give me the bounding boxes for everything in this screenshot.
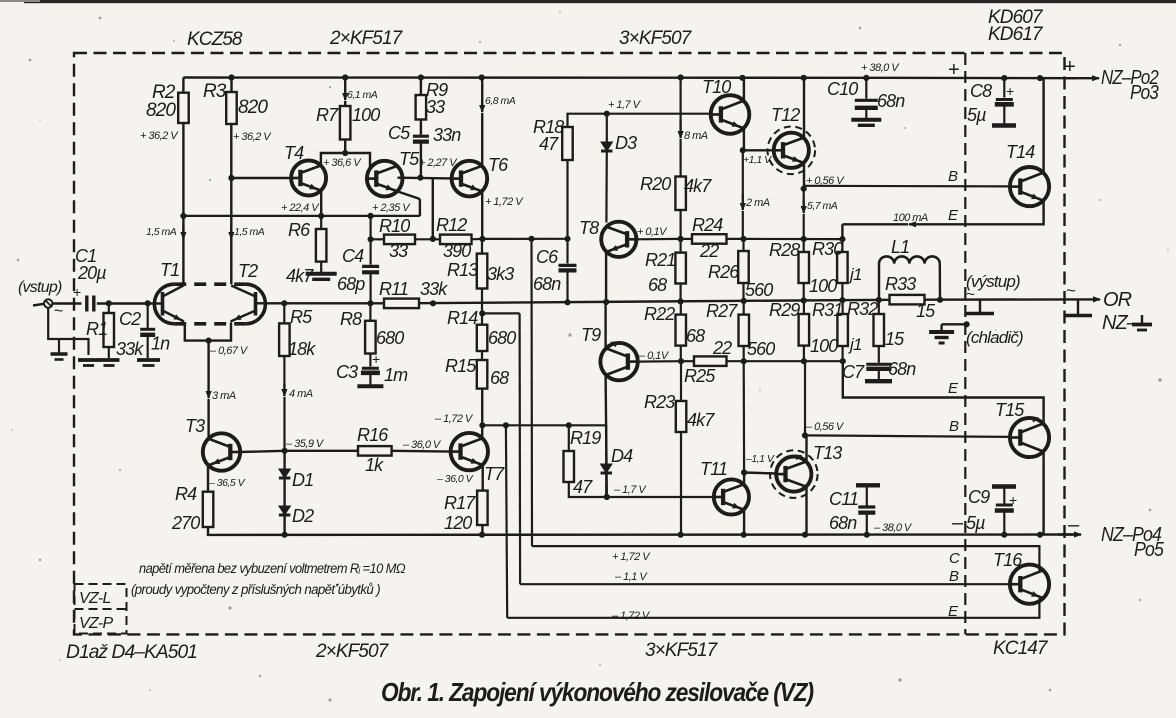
wire: T14 base line B [804, 185, 1010, 188]
svg-text:33k: 33k [116, 339, 144, 359]
svg-text:22: 22 [712, 338, 732, 358]
svg-text:j1: j1 [848, 265, 862, 284]
svg-text:100 mA: 100 mA [893, 212, 928, 224]
svg-text:T16: T16 [993, 550, 1023, 570]
svg-text:(výstup): (výstup) [966, 272, 1020, 291]
resistor R4 270 [203, 492, 214, 527]
svg-text:68: 68 [648, 275, 667, 295]
svg-text:D2: D2 [292, 506, 314, 526]
wire + 3mA arrow to T3 collector [207, 341, 209, 386]
resistor R12 390 [440, 235, 472, 245]
svg-text:3k3: 3k3 [487, 264, 514, 284]
svg-text:4k7: 4k7 [286, 266, 314, 286]
svg-text:T15: T15 [995, 400, 1025, 420]
svg-text:Po5: Po5 [1134, 539, 1165, 561]
chassis symbol below output rail at shield 1 [979, 300, 981, 313]
wire: R5 tail current column + 4mA [283, 303, 285, 323]
resistor R24 22 [681, 238, 692, 240]
svg-text:B: B [949, 568, 959, 585]
resistor R28 100 [799, 252, 810, 283]
svg-text:+ 1,72 V: + 1,72 V [612, 551, 651, 563]
svg-text:R12: R12 [436, 215, 467, 235]
wire: T10 emitter down to T12 base [743, 128, 745, 150]
svg-text:T10: T10 [702, 77, 731, 97]
svg-text:47: 47 [539, 134, 559, 154]
wire: T5 collector line to T6 base (+2,27V) [398, 176, 452, 179]
svg-text:R30: R30 [812, 239, 843, 259]
svg-text:VZ-P: VZ-P [79, 615, 113, 632]
svg-text:D1až D4–KA501: D1až D4–KA501 [66, 642, 197, 663]
svg-text:B: B [948, 168, 958, 185]
svg-text:Obr. 1. Zapojení výkonového ze: Obr. 1. Zapojení výkonového zesilovače (… [381, 677, 814, 707]
wire: T6 base drop to R12 [432, 178, 434, 238]
wire: R15 to T7 collector [481, 389, 483, 439]
ground at input jack [58, 339, 60, 353]
svg-text:R21: R21 [645, 250, 675, 270]
wire: T9 collector up to rail [604, 302, 606, 349]
svg-text:T14: T14 [1006, 142, 1035, 162]
svg-text:C3: C3 [336, 362, 358, 382]
capacitor C5 33n [420, 120, 422, 135]
svg-text:+ 1,7 V: + 1,7 V [608, 99, 642, 111]
wire: -1,72V line to D4 [482, 424, 606, 426]
resistor R2 820 [182, 78, 184, 93]
svg-text:T13: T13 [813, 443, 842, 463]
VZ-L / VZ-P selector box [75, 584, 127, 634]
svg-text:~: ~ [966, 286, 975, 303]
wire: T6 emitter down to R12/R13 node [481, 192, 483, 239]
node: R13/R14 junction with feedback tap [481, 289, 483, 325]
capacitor C8 5u electrolytic [1003, 78, 1005, 97]
wire + ground (chladic) [964, 321, 970, 327]
resistor R33 15 [890, 295, 925, 305]
capacitor C1 20u [85, 296, 88, 312]
resistor R22 68 [680, 301, 682, 315]
svg-text:R4: R4 [175, 484, 197, 504]
resistor R8 680 [369, 303, 371, 321]
svg-text:680: 680 [488, 328, 516, 348]
svg-text:T7: T7 [484, 464, 505, 484]
wire: T9 emitter down to -1,7V line [606, 375, 607, 497]
svg-text:R31: R31 [812, 300, 842, 320]
wire: T13 emitter up to -0,56V node [805, 435, 807, 460]
svg-text:T5: T5 [399, 149, 420, 169]
wire: main output rail (mid) [97, 302, 155, 304]
resistor R32 15 [878, 300, 880, 314]
svg-text:(vstup): (vstup) [18, 279, 62, 296]
wire: bottom rail arrow to NZ-Po4 [1058, 533, 1081, 535]
svg-text:– 1,72 V: – 1,72 V [434, 413, 474, 425]
svg-text:4k7: 4k7 [687, 410, 715, 430]
svg-text:C6: C6 [536, 247, 559, 267]
wire: input terminal to C1 [52, 302, 81, 304]
resistor R9 33 [420, 78, 422, 96]
svg-text:5,7 mA: 5,7 mA [807, 200, 838, 212]
svg-text:1m: 1m [384, 365, 408, 385]
svg-text:R1: R1 [86, 319, 107, 339]
ground at input shield entry [78, 358, 99, 362]
transistor T8 [601, 222, 636, 257]
svg-text:C11: C11 [829, 489, 858, 509]
ground below R1 [99, 358, 120, 362]
capacitor C10 68n [865, 78, 867, 99]
resistor R6 4k7 [320, 216, 322, 229]
svg-text:R24: R24 [692, 215, 723, 235]
capacitor C3 1m electrolytic [369, 354, 371, 367]
svg-text:+ 36,2 V: + 36,2 V [140, 130, 179, 142]
svg-text:–: – [1068, 514, 1080, 536]
capacitor C11 68n [856, 483, 880, 487]
svg-text:3×KF507: 3×KF507 [619, 28, 693, 49]
svg-text:C5: C5 [388, 123, 411, 143]
transistor T14 [1010, 167, 1049, 206]
svg-text:4k7: 4k7 [684, 176, 712, 196]
wire: T15 emitter E line to R31 node [843, 361, 1044, 423]
wire: feedback vertical -1,1V from R13/R14 node [518, 313, 521, 584]
transistor T6 [452, 161, 488, 197]
svg-text:E: E [948, 207, 959, 224]
svg-text:15: 15 [885, 329, 905, 349]
wire: T9 base to node [638, 360, 681, 363]
svg-text:+1,1 V: +1,1 V [743, 154, 772, 166]
svg-text:C9: C9 [968, 487, 990, 507]
wire: output arrow OR [1079, 298, 1100, 300]
svg-text:8 mA: 8 mA [684, 130, 708, 142]
svg-text:100: 100 [352, 105, 380, 125]
svg-text:C2: C2 [119, 309, 141, 329]
svg-text:C7: C7 [842, 362, 865, 382]
wire: top rail output arrow to NZ-Po2 [1066, 77, 1099, 79]
wire: -38V bottom supply rail [208, 527, 1077, 535]
chassis bar below C7 [865, 379, 892, 383]
resistor R5 18k [279, 323, 290, 356]
svg-text:D1: D1 [292, 470, 313, 490]
transistor T9 [600, 343, 637, 380]
svg-text:820: 820 [146, 100, 176, 121]
svg-text:B: B [949, 418, 959, 435]
transistor T13 with heatsink ring [744, 473, 776, 474]
svg-text:–1,1 V: –1,1 V [745, 453, 775, 465]
wire: T4 emitter down to +22,4V line [320, 191, 322, 216]
svg-text:+ 1,72 V: + 1,72 V [485, 196, 524, 208]
svg-text:+ 36,6 V: + 36,6 V [323, 157, 362, 169]
svg-text:6,8 mA: 6,8 mA [485, 95, 516, 107]
node: T4 base tap on R3 line [228, 175, 234, 181]
svg-text:– 36,0 V: – 36,0 V [436, 473, 474, 485]
wire: T8 emitter down to rail [605, 252, 607, 302]
wire: B line -1,1V to T16 base [520, 583, 1010, 585]
wire: +22,4V / +2,35V horizontal line [183, 215, 420, 217]
svg-text:R32: R32 [847, 299, 878, 319]
wire: T4 collector box to R7 and T5 base [321, 153, 370, 169]
svg-text:R7: R7 [316, 105, 339, 125]
svg-text:R5: R5 [290, 307, 313, 327]
node: mid rail junctions [106, 300, 112, 306]
wire: +38V top supply rail [183, 76, 1077, 79]
svg-text:1k: 1k [365, 455, 384, 475]
svg-text:R14: R14 [447, 308, 478, 328]
svg-text:18k: 18k [288, 339, 316, 359]
svg-text:T8: T8 [579, 218, 599, 238]
svg-text:6,1 mA: 6,1 mA [347, 89, 378, 101]
diode D3 [604, 111, 610, 117]
wire: T15 base line B [805, 435, 1010, 437]
svg-text:100: 100 [810, 336, 838, 356]
svg-text:L1: L1 [891, 237, 909, 257]
wire: T5 emitter to +2,35V line [398, 191, 420, 199]
svg-text:+ 2,27 V: + 2,27 V [419, 157, 458, 169]
diode D4 [605, 425, 607, 464]
resistor R1 33k [108, 304, 110, 314]
svg-text:390: 390 [443, 241, 471, 261]
svg-text:68n: 68n [533, 274, 561, 294]
svg-text:– 38,0 V: – 38,0 V [873, 522, 913, 534]
svg-text:2×KF517: 2×KF517 [329, 28, 404, 49]
svg-text:R29: R29 [769, 300, 800, 320]
svg-text:680: 680 [376, 328, 404, 348]
node: top rail junctions [228, 74, 234, 80]
svg-text:R13: R13 [447, 260, 478, 280]
svg-text:– 1,1 V: – 1,1 V [614, 571, 648, 583]
svg-text:–: – [952, 512, 964, 534]
wire: T2 collector to R3 [230, 124, 232, 284]
svg-text:– 1,7 V: – 1,7 V [613, 484, 647, 496]
svg-text:R3: R3 [203, 81, 227, 102]
svg-text:68: 68 [490, 368, 509, 388]
svg-text:D4: D4 [611, 446, 633, 466]
resistor R20 4k7 + 8mA [679, 78, 681, 121]
capacitor C7 68n [866, 363, 891, 366]
svg-text:1,5 mA: 1,5 mA [234, 226, 265, 238]
svg-text:– 35,9 V: – 35,9 V [285, 438, 325, 450]
svg-text:OR: OR [1103, 289, 1132, 311]
svg-text:R33: R33 [885, 274, 916, 294]
diode D2 KA501 [283, 478, 285, 506]
svg-text:T6: T6 [488, 155, 509, 175]
svg-text:R10: R10 [379, 216, 410, 236]
outer dashed enclosure border [74, 53, 1065, 634]
svg-text:+ 38,0 V: + 38,0 V [861, 62, 900, 74]
svg-text:100: 100 [809, 276, 837, 296]
transistor T12 with heatsink ring [743, 149, 774, 151]
svg-text:33k: 33k [420, 279, 448, 299]
svg-text:T1: T1 [160, 260, 179, 280]
svg-text:Po3: Po3 [1130, 82, 1159, 104]
svg-text:– 1,72 V: – 1,72 V [611, 610, 651, 622]
transistor T10 [711, 95, 750, 134]
svg-text:68p: 68p [337, 274, 365, 294]
svg-text:– 0,67 V: – 0,67 V [209, 345, 249, 357]
svg-text:R15: R15 [445, 356, 477, 376]
svg-text:KD617: KD617 [988, 24, 1044, 45]
transistor T7 [451, 433, 488, 470]
node line right of R24 [744, 238, 843, 240]
svg-text:120: 120 [444, 513, 472, 533]
ground below C3 [357, 384, 383, 388]
svg-text:T3: T3 [185, 416, 205, 436]
svg-text:+: + [1009, 492, 1017, 508]
wire: T3 emitter to R4 [207, 466, 209, 492]
capacitor C4 68p [370, 216, 372, 239]
ground below C2 [137, 358, 160, 362]
transistor T2 [256, 302, 266, 304]
wire: T7 emitter to R17 [481, 465, 483, 490]
wire: input ground run [48, 308, 88, 355]
svg-text:820: 820 [238, 97, 268, 118]
transistor T16 [1010, 565, 1049, 604]
svg-text:+: + [372, 351, 380, 367]
svg-text:R6: R6 [288, 220, 311, 240]
resistor R11 33k [384, 299, 419, 309]
svg-text:+: + [73, 284, 81, 300]
svg-text:33n: 33n [433, 125, 461, 145]
svg-text:R27: R27 [706, 301, 738, 321]
svg-text:R16: R16 [357, 425, 389, 445]
svg-text:33: 33 [389, 241, 408, 261]
svg-text:KCZ58: KCZ58 [187, 29, 243, 50]
svg-text:– 0,56 V: – 0,56 V [805, 421, 845, 433]
resistor R21 68 [678, 236, 684, 242]
svg-text:~: ~ [54, 303, 63, 320]
resistor R19 47 [568, 425, 570, 451]
svg-text:15: 15 [916, 301, 936, 321]
wire: D2 to bottom rail [283, 515, 285, 535]
transistor pair T1 T2 stadium outline [154, 284, 174, 324]
svg-text:1n: 1n [151, 334, 170, 354]
svg-text:+ 36,2 V: + 36,2 V [233, 131, 272, 143]
svg-text:33: 33 [426, 97, 445, 117]
resistor R10 33 [384, 235, 415, 245]
svg-text:(proudy vypočteny z příslušnýc: (proudy vypočteny z příslušných napěťʼúb… [131, 582, 380, 597]
svg-text:2×KF507: 2×KF507 [315, 641, 390, 662]
resistor R14 680 [477, 325, 488, 351]
wire: T14 emitter E line + 100mA [928, 201, 1044, 225]
wire: T6 collector to top rail + 6,8mA [481, 113, 483, 165]
wire: T12 base tap down to R26 + 2mA [742, 150, 744, 194]
current arrow 4mA [283, 356, 285, 384]
svg-text:C: C [949, 550, 960, 567]
svg-text:R26: R26 [708, 262, 740, 282]
resistor R27 560 [743, 301, 745, 315]
resistor R7 100 [344, 78, 346, 88]
svg-text:47: 47 [573, 477, 593, 497]
resistor R31 j1 [841, 300, 843, 314]
transistor T15 [1010, 418, 1049, 457]
wire: C line +1,72V to T16 collector [532, 546, 1039, 571]
scan edge artifact top [24, 0, 1176, 3]
wire: T12 emitter to +0,56V node + 5,7mA [803, 164, 805, 189]
node: bottom rail junctions [282, 532, 288, 538]
svg-text:68: 68 [686, 326, 705, 346]
current arrow 1,5mA right [230, 226, 232, 239]
svg-text:5µ: 5µ [967, 105, 986, 125]
svg-text:+: + [948, 59, 959, 81]
svg-text:T9: T9 [581, 325, 601, 345]
capacitor C9 5u electrolytic [992, 484, 1016, 488]
node line from R12 to C6 (T8 side) [483, 238, 568, 240]
chassis symbol below output rail at shield 2 [1077, 299, 1079, 314]
svg-text:R28: R28 [769, 240, 800, 260]
svg-text:68n: 68n [829, 513, 857, 533]
svg-text:270: 270 [171, 513, 200, 533]
svg-text:(chladič): (chladič) [966, 328, 1023, 347]
svg-text:+ 2,35 V: + 2,35 V [372, 202, 411, 214]
ground below R6 [320, 262, 322, 273]
resistor R26 560 [742, 239, 744, 251]
svg-text:1,5 mA: 1,5 mA [146, 226, 177, 238]
wire: T11 collector up to T13 base node [743, 473, 745, 485]
wire: T13 collector to bottom rail [805, 488, 807, 535]
svg-text:560: 560 [747, 339, 775, 359]
transistor T4 [291, 161, 326, 196]
wire: T8 base to node [636, 238, 680, 241]
svg-text:R22: R22 [644, 304, 675, 324]
svg-text:R19: R19 [570, 428, 601, 448]
node line right of R25 [744, 360, 843, 362]
diode D1 KA501 [283, 451, 285, 469]
svg-text:E: E [948, 380, 959, 397]
resistor R13 3k3 [481, 239, 483, 254]
inductor L1 [878, 264, 880, 300]
svg-text:– 0,1V: – 0,1V [638, 350, 670, 362]
svg-text:– 36,0 V: – 36,0 V [402, 439, 442, 451]
wire: T4 base from R3 line [231, 177, 291, 179]
resistor R18 47 [566, 160, 568, 239]
wire: T12 collector to rail [803, 78, 805, 137]
svg-text:T2: T2 [238, 261, 258, 281]
wire: feedback vertical +1,72V from R12 node [530, 239, 533, 546]
svg-text:3 mA: 3 mA [212, 390, 236, 402]
resistor R16 1k [285, 450, 358, 452]
svg-text:T4: T4 [284, 143, 304, 163]
svg-text:+: + [1064, 56, 1075, 78]
svg-text:2 mA: 2 mA [745, 197, 770, 209]
resistor R17 120 [477, 491, 488, 525]
svg-text:R25: R25 [684, 366, 716, 386]
svg-text:22: 22 [699, 241, 719, 261]
svg-text:R23: R23 [644, 392, 675, 412]
transistor T5 [367, 161, 403, 197]
svg-text:68n: 68n [877, 91, 905, 111]
wire: T14 collector to rail [1042, 78, 1044, 172]
svg-text:R8: R8 [340, 309, 362, 329]
wire: T3 base line with -35,9V [240, 451, 284, 452]
svg-text:R11: R11 [379, 279, 408, 299]
resistor R23 4k7 [680, 361, 682, 401]
svg-text:napětí měřena bez vybuzení vol: napětí měřena bez vybuzení voltmetrem Rᵢ… [139, 561, 405, 576]
svg-text:+ 0,1V: + 0,1V [637, 226, 668, 238]
svg-text:C8: C8 [970, 81, 992, 101]
svg-text:5µ: 5µ [966, 513, 985, 533]
transistor T3 [203, 433, 240, 470]
transistor T1 [154, 302, 162, 304]
resistor R15 68 [481, 351, 483, 360]
wire: T15 collector to bottom rail [1042, 452, 1044, 535]
wire: T11 emitter to bottom rail [743, 510, 745, 535]
svg-text:+: + [1006, 83, 1014, 99]
svg-text:VZ-L: VZ-L [79, 590, 111, 607]
svg-text:R17: R17 [444, 493, 476, 513]
svg-text:560: 560 [745, 280, 773, 300]
capacitor C6 68n [566, 239, 568, 264]
svg-text:KC147: KC147 [993, 638, 1049, 659]
resistor R25 22 [681, 360, 694, 362]
wire: E line -1,72V to T16 emitter [507, 598, 1039, 618]
wire: T10 collector to rail [743, 78, 745, 101]
capacitor C2 1n [147, 304, 149, 329]
svg-text:4 mA: 4 mA [289, 388, 313, 400]
transistor T11 [713, 496, 715, 498]
